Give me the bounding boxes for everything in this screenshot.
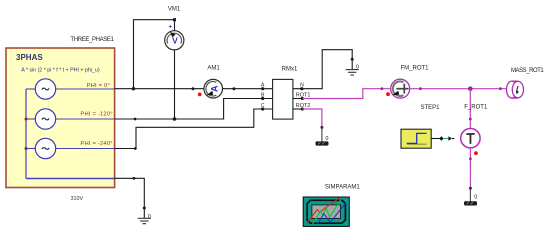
svg-text:0: 0: [325, 136, 328, 142]
torque meter FM_ROT1: [391, 79, 410, 98]
marker red dot AM1: [198, 93, 202, 97]
ground bar ROT2: [316, 141, 329, 145]
wire ROT1 stub: [293, 98, 302, 100]
svg-text:THREE_PHASE1: THREE_PHASE1: [70, 37, 114, 43]
wire source1 right (internal): [56, 88, 115, 90]
ground earth top-right: [346, 70, 359, 75]
wire stub source1 left: [26, 88, 35, 90]
node F_ROT1 top pin: [469, 118, 472, 121]
node phase3 pin: [134, 147, 137, 150]
wire phase3 to C: [115, 109, 273, 149]
wire stub source2 left: [26, 118, 35, 120]
internal left bus wire: [25, 89, 27, 179]
marker red dot FM_ROT1: [386, 92, 390, 96]
node VM1 bottom junction: [173, 117, 177, 121]
wire VM1 bottom: [174, 50, 176, 119]
junction node source3: [25, 147, 28, 150]
node pin A: [261, 87, 264, 90]
svg-text:310V: 310V: [71, 196, 84, 202]
AC source V2: [35, 109, 55, 129]
svg-text:RMx1: RMx1: [282, 67, 298, 73]
node FM_ROT1 right pin: [419, 87, 422, 90]
step source STEP1: [401, 129, 431, 148]
ground bar F_ROT1: [464, 201, 477, 205]
svg-text:0: 0: [356, 64, 359, 70]
svg-text:VM1: VM1: [168, 6, 181, 12]
svg-text:0: 0: [148, 214, 151, 220]
block RMx1: [273, 79, 293, 119]
wire junction down to F_ROT1 (magenta): [469, 89, 471, 129]
wire neutral to ground: [115, 178, 145, 218]
svg-text:SIMPARAM1: SIMPARAM1: [325, 185, 361, 191]
node pin ROT2: [301, 107, 304, 110]
svg-text:F_ROT1: F_ROT1: [464, 104, 488, 110]
marker red dot F_ROT1: [474, 151, 478, 155]
node MASS_ROT1 pin: [499, 87, 502, 90]
node ground pin: [143, 207, 146, 210]
wire ROT2 stub: [293, 108, 302, 110]
simulation parameters SIMPARAM1: [303, 197, 349, 226]
svg-text:A: A: [210, 85, 220, 92]
internal bottom bus wire: [26, 178, 115, 180]
node neutral pin: [133, 177, 136, 180]
svg-text:0: 0: [474, 195, 477, 201]
svg-text:STEP1: STEP1: [420, 105, 440, 111]
wire FM_ROT1 to MASS_ROT1 (magenta): [410, 88, 508, 90]
svg-text:AM1: AM1: [207, 66, 220, 72]
node AM1 left pin: [192, 87, 195, 90]
wire VM1 branch: [134, 20, 175, 89]
wire ground stub ROT2: [321, 127, 323, 141]
svg-text:V: V: [172, 36, 178, 46]
wire phase1 to A: [223, 88, 273, 90]
wire ROT2 to ground (magenta): [302, 109, 322, 127]
wire F_ROT1 to ground (magenta): [469, 148, 471, 188]
node phase2 pin: [134, 118, 137, 121]
node phase1 pin: [132, 87, 135, 90]
node ground pin (top-right): [351, 58, 354, 61]
node FM_ROT1 left pin: [381, 87, 384, 90]
svg-text:3PHAS: 3PHAS: [16, 53, 43, 62]
torque source F_ROT1: [461, 129, 480, 148]
junction node rotor net: [468, 86, 473, 91]
wire ground stub F_ROT1: [469, 188, 471, 201]
svg-text:PHI = -240°: PHI = -240°: [80, 141, 112, 147]
rotational mass MASS_ROT1: [507, 81, 524, 98]
wire source2 right (internal): [56, 118, 115, 120]
wire phase1: [115, 88, 204, 90]
node ground pin (F_ROT1): [469, 187, 472, 190]
ammeter AM1: [204, 79, 223, 98]
wire N to ground: [293, 50, 352, 89]
node ground pin (ROT2): [320, 126, 323, 129]
node pin ROT1: [301, 97, 304, 100]
three-phase source block THREE_PHASE1: [6, 48, 115, 188]
svg-text:A * sin (2 * pi * f * t + PHI: A * sin (2 * pi * f * t + PHI + phi_u): [21, 68, 100, 74]
wire source3 right (internal): [56, 148, 115, 150]
wire stub source3 left: [26, 148, 35, 150]
node VM1 top pin: [173, 18, 176, 21]
node AM1 right pin: [232, 87, 235, 90]
svg-text:FM_ROT1: FM_ROT1: [401, 66, 430, 72]
junction node source2: [25, 118, 28, 121]
svg-text:PHI = 0°: PHI = 0°: [87, 83, 110, 89]
wire phase2 to B: [115, 99, 273, 120]
svg-text:+: +: [168, 24, 172, 31]
voltmeter VM1: [165, 31, 184, 50]
AC source V1: [35, 79, 55, 99]
node F_ROT1 bottom pin: [469, 157, 472, 160]
svg-text:MASS_ROT1: MASS_ROT1: [511, 68, 544, 74]
AC source V3: [35, 138, 55, 158]
node pin C: [261, 107, 264, 110]
node pin N: [300, 87, 303, 90]
svg-text:PHI = -120°: PHI = -120°: [80, 112, 112, 118]
svg-text:C: C: [261, 103, 265, 109]
ground earth bottom-left: [138, 218, 151, 223]
signal wire STEP1 to F_ROT1: [431, 136, 454, 141]
node pin B: [261, 97, 264, 100]
wire ROT1 to FM_ROT1 (magenta): [302, 89, 391, 99]
